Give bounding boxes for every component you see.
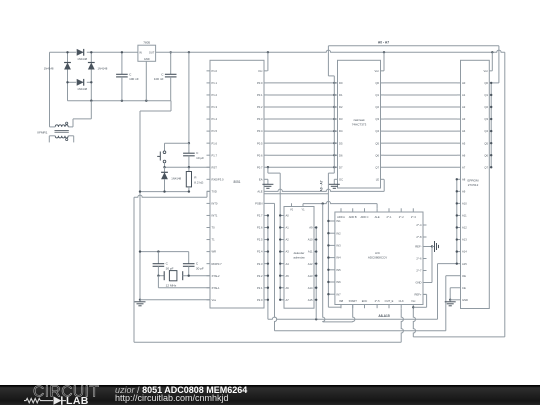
svg-text:2^-8: 2^-8: [416, 235, 422, 239]
svg-text:A0 - A7: A0 - A7: [378, 41, 389, 45]
svg-text:GND: GND: [462, 298, 468, 302]
svg-text:Y1: Y1: [301, 208, 305, 212]
adc U6 ADC0808CCV: [328, 208, 426, 308]
resistor R1 8.2k: [186, 167, 204, 191]
svg-text:P1.1: P1.1: [212, 81, 218, 85]
svg-text:IN3: IN3: [336, 244, 341, 248]
svg-text:OC: OC: [339, 177, 343, 181]
svg-text:P2.3: P2.3: [257, 262, 263, 266]
svg-text:A13: A13: [462, 238, 467, 242]
svg-text:A0 - A7: A0 - A7: [319, 180, 323, 191]
svg-text:A1: A1: [462, 93, 466, 97]
svg-text:PSEN: PSEN: [255, 202, 262, 206]
svg-text:Q2: Q2: [484, 105, 488, 109]
svg-text:A8: A8: [462, 177, 466, 181]
svg-text:IN7: IN7: [336, 292, 341, 296]
wire TXD loop: [134, 191, 401, 342]
decoder U5 address decoder: [280, 203, 316, 308]
svg-text:ADD A: ADD A: [337, 215, 345, 219]
svg-text:C: C: [196, 151, 199, 155]
wire D bus vertical: [328, 46, 341, 307]
node A0-A7 bus label vertical: [319, 180, 323, 191]
svg-text:1N4148: 1N4148: [98, 66, 108, 70]
svg-text:D7: D7: [339, 165, 343, 169]
svg-text:ADD B: ADD B: [349, 215, 357, 219]
svg-text:Q5: Q5: [375, 141, 379, 145]
svg-text:D0: D0: [339, 81, 343, 85]
svg-text:P1.3: P1.3: [212, 105, 218, 109]
wire transformer secondary stubs: [49, 136, 73, 143]
capacitor C5 30pF: [183, 252, 204, 276]
svg-text:IN8: IN8: [339, 299, 344, 303]
svg-text:EOC: EOC: [362, 299, 368, 303]
svg-text:A6: A6: [462, 153, 466, 157]
wire P0 data lines: [268, 83, 338, 167]
wire latch Vcc riser: [383, 52, 385, 71]
op-amp U1 8051 microcontroller: [207, 60, 268, 308]
svg-text:Q4: Q4: [484, 129, 488, 133]
svg-text:LE: LE: [376, 177, 379, 181]
svg-text:A3: A3: [462, 117, 466, 121]
svg-text:IN2: IN2: [336, 231, 341, 235]
svg-text:zatrzask: zatrzask: [353, 118, 365, 122]
svg-text:2^-4: 2^-4: [416, 223, 422, 227]
wire Vss line: [140, 299, 210, 301]
wire latch Q to EPROM A lines: [384, 83, 457, 167]
regulator U2 7805: [138, 40, 156, 61]
wire top AC rail: [50, 51, 138, 53]
svg-text:2^-2: 2^-2: [399, 215, 405, 219]
svg-text:A7: A7: [462, 165, 466, 169]
wire bridge left column: [67, 82, 69, 100]
capacitor C4 30pF: [153, 252, 174, 276]
svg-text:Q5: Q5: [484, 141, 488, 145]
wire reset ground rail: [139, 190, 190, 192]
latch U3 74HCT373: [334, 60, 384, 188]
svg-text:P0.6: P0.6: [257, 153, 263, 157]
svg-text:30 pF: 30 pF: [196, 266, 204, 270]
svg-text:D5: D5: [339, 141, 343, 145]
wire EPROM Vcc riser: [491, 52, 493, 71]
junction dots GND rail: [90, 100, 147, 102]
svg-text:P1.5: P1.5: [212, 129, 218, 133]
transformer XFMR1: [37, 122, 69, 140]
svg-text:P0.5: P0.5: [257, 141, 263, 145]
svg-text:100 nF: 100 nF: [154, 77, 164, 81]
svg-text:10 µF: 10 µF: [196, 156, 204, 160]
svg-text:P2.7: P2.7: [257, 214, 263, 218]
svg-text:OE: OE: [462, 274, 466, 278]
wire stub row10b: [264, 193, 328, 195]
svg-text:IN6: IN6: [336, 280, 341, 284]
svg-text:A0: A0: [286, 214, 290, 218]
svg-text:1N4148: 1N4148: [44, 66, 54, 70]
svg-text:Q1: Q1: [484, 93, 488, 97]
diode D2 1N4148 (left bridge): [44, 52, 71, 82]
svg-text:ADC0808CCV: ADC0808CCV: [368, 256, 387, 260]
svg-text:A15: A15: [462, 262, 467, 266]
svg-text:74HCT373: 74HCT373: [352, 123, 367, 127]
svg-text:P2.6: P2.6: [257, 226, 263, 230]
svg-text:INT1: INT1: [212, 214, 218, 218]
wire REF+ to Vcc: [413, 294, 426, 307]
svg-text:A14: A14: [308, 286, 313, 290]
svg-text:Q0: Q0: [484, 81, 488, 85]
svg-text:A8-A15: A8-A15: [378, 314, 390, 318]
svg-text:A2: A2: [286, 238, 290, 242]
ground EPROM GND: [445, 300, 456, 306]
svg-text:ALE: ALE: [375, 215, 380, 219]
wire bridge right column: [90, 82, 92, 100]
svg-text:P0.2: P0.2: [257, 105, 263, 109]
svg-text:IN1: IN1: [336, 219, 341, 223]
wire A8-A15 bus lower: [268, 264, 457, 321]
svg-text:P2.0: P2.0: [257, 298, 263, 302]
svg-text:8.2 kΩ: 8.2 kΩ: [194, 181, 204, 185]
wire PSEN riser: [268, 203, 277, 330]
svg-text:LAB: LAB: [66, 395, 89, 405]
svg-text:XFMR1: XFMR1: [37, 130, 48, 134]
svg-text:CLK: CLK: [399, 299, 404, 303]
svg-text:P0.1: P0.1: [257, 93, 263, 97]
svg-text:ADD C: ADD C: [360, 215, 368, 219]
svg-text:30 pF: 30 pF: [166, 266, 174, 270]
svg-text:Vcc: Vcc: [411, 299, 416, 303]
svg-text:GND: GND: [144, 57, 150, 61]
wire decoder right bus: [315, 226, 317, 319]
wire 5V rail: [156, 50, 505, 52]
wire bridge middle: [68, 81, 92, 83]
svg-text:A7: A7: [286, 298, 290, 302]
wire 7805 GND pin: [145, 61, 147, 100]
svg-text:A13: A13: [308, 274, 313, 278]
svg-text:OUT_E: OUT_E: [385, 299, 394, 303]
svg-text:A10: A10: [308, 238, 313, 242]
ground Vss: [135, 299, 146, 306]
svg-text:INT0: INT0: [212, 202, 218, 206]
svg-text:T1: T1: [212, 238, 216, 242]
svg-text:Vss: Vss: [212, 298, 217, 302]
svg-text:C: C: [161, 72, 164, 76]
wire Y1 to ADC ALE: [303, 201, 377, 208]
svg-text:P2.4: P2.4: [257, 250, 263, 254]
capacitor C1 100nF: [116, 51, 139, 101]
memory U4 EPROM 27C512: [457, 60, 492, 308]
svg-text:A4: A4: [286, 262, 290, 266]
svg-text:A12: A12: [308, 262, 313, 266]
wire RST line: [163, 166, 210, 168]
svg-text:C: C: [129, 72, 132, 76]
svg-text:Vcc: Vcc: [484, 69, 489, 73]
svg-text:P1.0: P1.0: [212, 69, 218, 73]
svg-text:P1.6: P1.6: [212, 141, 218, 145]
svg-text:P2.2: P2.2: [257, 274, 263, 278]
svg-text:XTAL2: XTAL2: [212, 274, 221, 278]
wire transformer primary riser: [68, 101, 91, 127]
svg-text:WR: WR: [212, 250, 217, 254]
svg-text:D3: D3: [339, 117, 343, 121]
svg-text:A/C: A/C: [375, 251, 381, 255]
svg-text:A9: A9: [309, 226, 313, 230]
svg-text:Vcc: Vcc: [258, 69, 263, 73]
svg-text:A15: A15: [308, 298, 313, 302]
svg-text:IN5: IN5: [336, 268, 341, 272]
ground latch OC: [329, 179, 340, 188]
svg-text:RST: RST: [212, 165, 218, 169]
svg-text:Q7: Q7: [484, 165, 488, 169]
svg-text:A6: A6: [286, 286, 290, 290]
svg-text:IN: IN: [139, 50, 142, 54]
wire EPROM data bus: [490, 82, 492, 169]
svg-text:A10: A10: [462, 202, 467, 206]
node A8-A15 label: [378, 314, 390, 318]
svg-text:P1.7: P1.7: [212, 153, 218, 157]
svg-text:1N4148: 1N4148: [171, 176, 181, 180]
svg-text:P1.2: P1.2: [212, 93, 218, 97]
junction dots crystal: [157, 275, 190, 277]
diode D4 1N4148: [77, 79, 88, 91]
svg-text:Q0: Q0: [375, 81, 379, 85]
switch S1 reset: [157, 143, 189, 167]
wire 8051 Vcc riser: [267, 52, 269, 71]
svg-text:REF+: REF+: [415, 293, 422, 297]
svg-text:A2: A2: [462, 105, 466, 109]
svg-text:TXD: TXD: [212, 189, 217, 193]
svg-text:Q6: Q6: [484, 153, 488, 157]
wire GND rail: [68, 101, 172, 300]
svg-text:RD/P3.7: RD/P3.7: [212, 262, 223, 266]
svg-text:REF-: REF-: [415, 245, 421, 249]
svg-text:D4: D4: [339, 129, 343, 133]
wire 5V right drop: [413, 52, 505, 337]
junction dots D bus: [333, 82, 335, 169]
svg-text:C: C: [196, 262, 199, 266]
diode D1 1N4148: [77, 49, 88, 61]
svg-text:Q7: Q7: [375, 165, 379, 169]
svg-text:Q6: Q6: [375, 153, 379, 157]
wire P0.7 tap to decoder: [267, 166, 282, 301]
svg-text:2^-3: 2^-3: [411, 215, 417, 219]
svg-text:A4: A4: [462, 129, 466, 133]
svg-text:2^-5: 2^-5: [375, 299, 381, 303]
svg-text:Q2: Q2: [375, 105, 379, 109]
svg-text:P0.7: P0.7: [257, 165, 263, 169]
svg-text:R: R: [194, 175, 197, 179]
svg-text:7805: 7805: [143, 40, 150, 44]
svg-text:Q3: Q3: [484, 117, 488, 121]
wire XTAL1: [158, 276, 210, 288]
svg-text:P2.5: P2.5: [257, 238, 263, 242]
svg-text:OUT: OUT: [149, 50, 155, 54]
svg-text:A11: A11: [462, 214, 467, 218]
wire PSEN to OE: [275, 276, 458, 331]
svg-text:P0.0: P0.0: [257, 81, 263, 85]
svg-text:XTAL1: XTAL1: [212, 286, 221, 290]
svg-text:GND: GND: [416, 281, 422, 285]
wire crystal top rail: [139, 250, 189, 252]
svg-text:P0.3: P0.3: [257, 117, 263, 121]
wire ALE to START: [323, 204, 355, 322]
svg-text:D6: D6: [339, 153, 343, 157]
svg-text:Q3: Q3: [375, 117, 379, 121]
wire CLK riser: [401, 308, 403, 342]
wire ALE to LE: [268, 179, 385, 191]
svg-text:CE: CE: [462, 286, 466, 290]
wire left AC drop: [49, 52, 51, 127]
svg-text:A14: A14: [462, 250, 467, 254]
svg-text:P1.4: P1.4: [212, 117, 218, 121]
diode D3 1N4148 (right bridge): [88, 52, 108, 82]
svg-text:2^-1: 2^-1: [387, 215, 393, 219]
wire ADC Vcc riser: [412, 306, 415, 337]
svg-text:1N4148: 1N4148: [77, 57, 87, 61]
svg-text:D1: D1: [339, 93, 343, 97]
svg-text:P2.1: P2.1: [257, 286, 263, 290]
crystal X1 12MHz: [158, 271, 210, 288]
svg-text:IN4: IN4: [336, 256, 341, 260]
svg-text:A3: A3: [286, 250, 290, 254]
svg-text:8051: 8051: [233, 180, 240, 184]
svg-text:A5: A5: [462, 141, 466, 145]
svg-text:A0: A0: [462, 81, 466, 85]
wire EPROM address bus: [456, 178, 458, 265]
wire CE to ground: [449, 288, 457, 301]
svg-text:ALE: ALE: [257, 189, 262, 193]
wire top data bus: [328, 46, 499, 83]
svg-text:RXD/P3.0: RXD/P3.0: [212, 177, 224, 181]
CircuitLab logo: [20, 384, 130, 405]
svg-text:1N4148: 1N4148: [77, 87, 87, 91]
svg-text:A1: A1: [286, 226, 290, 230]
capacitor C3 10uF: [183, 143, 204, 167]
svg-text:adresów: adresów: [293, 256, 305, 260]
svg-text:Y0: Y0: [290, 208, 294, 212]
svg-text:Q4: Q4: [375, 129, 379, 133]
svg-text:A12: A12: [462, 226, 467, 230]
svg-text:12 MHz: 12 MHz: [166, 283, 177, 287]
svg-text:A11: A11: [308, 250, 313, 254]
svg-text:P0.4: P0.4: [257, 129, 263, 133]
svg-text:A9: A9: [462, 189, 466, 193]
junction dots 5V rail: [188, 51, 494, 53]
diode D5 1N4148 (reset): [161, 167, 181, 191]
svg-text:C: C: [166, 262, 169, 266]
svg-text:Vcc: Vcc: [375, 69, 380, 73]
svg-text:EPROM: EPROM: [467, 178, 479, 182]
svg-text:START: START: [349, 299, 358, 303]
svg-text:D2: D2: [339, 105, 343, 109]
svg-text:dekoder: dekoder: [294, 251, 305, 255]
junction dots bridge: [66, 51, 92, 83]
wire REF- ground: [427, 241, 439, 283]
svg-text:A5: A5: [286, 274, 290, 278]
svg-text:27C512: 27C512: [468, 183, 479, 187]
wire reset 5V riser: [188, 52, 190, 144]
node A0-A7 top bus label: [378, 41, 389, 45]
svg-text:100 nF: 100 nF: [129, 77, 139, 81]
svg-text:Q1: Q1: [375, 93, 379, 97]
ground 8051 EA: [262, 179, 273, 188]
capacitor C2 100nF: [154, 51, 177, 101]
svg-text:2^-6: 2^-6: [416, 257, 422, 261]
wire ADC IN bus dots: [327, 220, 329, 296]
wire P2 bus: [267, 214, 269, 319]
svg-text:T0: T0: [212, 226, 216, 230]
svg-text:2^-7: 2^-7: [416, 269, 422, 273]
svg-text:EA: EA: [259, 177, 263, 181]
